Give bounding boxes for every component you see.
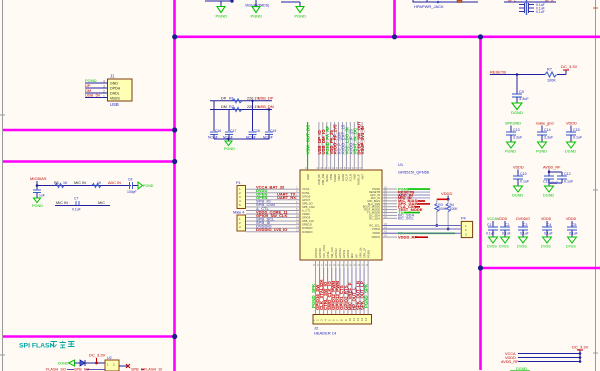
svg-text:1uF: 1uF: [39, 194, 45, 198]
ground PGND: [538, 142, 547, 148]
svg-text:DGND: DGND: [565, 150, 576, 154]
svg-text:VTRIO: VTRIO: [372, 227, 380, 231]
svg-text:DC_3.3V: DC_3.3V: [561, 64, 578, 69]
svg-text:R7: R7: [547, 68, 552, 72]
svg-text:USB_DM: USB_DM: [258, 105, 274, 109]
net labels: [67, 369, 144, 371]
wire I2C_SCL long: [382, 228, 461, 230]
svg-text:DP: DP: [221, 97, 227, 101]
svg-text:DVSS: DVSS: [499, 245, 509, 249]
svg-text:PGND: PGND: [32, 204, 43, 208]
svg-text:DGND: DGND: [543, 194, 554, 198]
svg-text:C17: C17: [230, 129, 236, 133]
connector J4 box1: [233, 181, 246, 215]
svg-text:C4: C4: [547, 223, 551, 227]
partition horizontal line y=130 left: [3, 129, 175, 132]
svg-text:VDD: VDD: [353, 174, 357, 180]
resistor R2: [232, 108, 242, 112]
svg-text:PGND_SPK: PGND_SPK: [364, 283, 369, 308]
svg-text:C5: C5: [572, 223, 576, 227]
partition horizontal line y=161 left: [3, 160, 175, 163]
chip inner pin names: [302, 173, 381, 258]
svg-text:XO_N: XO_N: [349, 174, 353, 181]
svg-text:DVDDIO: DVDDIO: [516, 217, 530, 221]
svg-text:0.1uF: 0.1uF: [564, 180, 574, 184]
resistor R7: [545, 72, 557, 77]
partition vertical line x=174: [173, 0, 176, 371]
svg-text:0.1uF: 0.1uF: [520, 232, 529, 236]
junction dot (174,161): [172, 159, 177, 164]
chip U1 GR5515I: [300, 162, 430, 260]
junction dot (174,130): [172, 127, 177, 132]
capacitor C12: [557, 176, 567, 179]
svg-text:DVSS: DVSS: [566, 245, 576, 249]
svg-text:C12: C12: [564, 172, 571, 176]
svg-text:0.1uF: 0.1uF: [573, 136, 583, 140]
svg-text:XO_P: XO_P: [345, 174, 349, 181]
connector J4 box2: [237, 215, 246, 231]
resistor R3 R4 pullups: [435, 191, 458, 231]
svg-text:3.3uF: 3.3uF: [513, 136, 523, 140]
svg-text:DGND: DGND: [511, 110, 523, 115]
svg-text:USB_DM: USB_DM: [321, 173, 325, 185]
svg-text:0.1uF: 0.1uF: [72, 208, 81, 212]
wire mic row: [37, 181, 131, 186]
svg-text:SPK_LP: SPK_LP: [362, 248, 366, 258]
connector J5: [461, 217, 473, 238]
header J2: [311, 315, 371, 336]
svg-text:FLASH_SO: FLASH_SO: [46, 368, 66, 371]
svg-text:GND: GND: [110, 82, 118, 86]
svg-text:USB_DP: USB_DP: [317, 174, 321, 185]
svg-text:GPIO13: GPIO13: [338, 248, 342, 258]
capacitor C4: [546, 221, 548, 227]
svg-text:ANT: ANT: [360, 174, 364, 180]
svg-text:R2: R2: [229, 105, 234, 109]
svg-text:C9: C9: [519, 90, 524, 94]
junction dot (480,37): [478, 34, 483, 39]
resistor R5: [55, 184, 64, 188]
capacitor C8: [130, 182, 133, 189]
svg-text:VBAT: VBAT: [337, 174, 341, 181]
svg-text:C11: C11: [543, 180, 549, 184]
chip right pin wires: [382, 189, 397, 237]
svg-text:VDDD: VDDD: [441, 191, 452, 196]
svg-text:VDDD: VDDD: [513, 166, 524, 170]
svg-text:C18: C18: [254, 129, 260, 133]
svg-text:C7: C7: [74, 197, 78, 201]
mic circuit: [30, 176, 154, 212]
svg-text:NC/pF: NC/pF: [263, 136, 273, 140]
svg-text:DC_3.3V: DC_3.3V: [89, 353, 106, 358]
capacitor C6: [33, 190, 41, 193]
svg-text:U2: U2: [107, 356, 112, 360]
partition horizontal line y=336 left: [3, 335, 175, 338]
svg-text:SPI FLASH: SPI FLASH: [19, 343, 55, 350]
cap row3 C1-C5: [486, 217, 578, 249]
svg-text:VDDD_RF: VDDD_RF: [398, 234, 417, 239]
svg-text:DVSS: DVSS: [517, 245, 527, 249]
svg-text:DVSS: DVSS: [487, 245, 497, 249]
svg-text:PGND: PGND: [366, 250, 370, 258]
ground PGND top3: [295, 7, 307, 19]
ground PGND top1: [216, 7, 228, 19]
partition vertical line x=480: [479, 36, 482, 370]
resistor R4: [447, 199, 449, 203]
partition horizontal line y=37: [174, 35, 600, 38]
SPI flash title: [19, 341, 75, 350]
svg-text:0.1uF: 0.1uF: [486, 232, 495, 236]
junction dot (174,336): [172, 334, 177, 339]
chip right pin net labels: [398, 186, 455, 239]
svg-text:C3: C3: [523, 223, 527, 227]
ground PGND top2: [251, 7, 263, 19]
svg-text:14: 14: [364, 317, 368, 321]
svg-text:3.3uF: 3.3uF: [544, 136, 554, 140]
svg-text:PGND: PGND: [224, 147, 235, 151]
svg-text:C8: C8: [128, 178, 132, 182]
ground DGND: [514, 186, 523, 192]
bottom-right power stub: [501, 345, 589, 371]
svg-text:USB: USB: [110, 102, 119, 107]
svg-text:ADC IN: ADC IN: [108, 181, 121, 185]
chip top pin net labels: [306, 121, 366, 155]
svg-text:DVDDIO: DVDDIO: [302, 230, 312, 234]
svg-text:GPIO9: GPIO9: [302, 216, 311, 220]
partition horizontal line y=268 right: [480, 267, 600, 270]
vertical drops: [214, 101, 269, 141]
svg-text:DVSS: DVSS: [541, 245, 551, 249]
svg-text:UART_RX: UART_RX: [277, 195, 296, 200]
power DC_3.3V: [563, 69, 569, 71]
svg-text:GPIO2: GPIO2: [346, 249, 350, 258]
ground PGND mic: [34, 198, 41, 203]
svg-text:100K: 100K: [450, 207, 459, 211]
svg-text:PGND: PGND: [216, 14, 228, 19]
svg-text:PGND: PGND: [295, 14, 307, 19]
svg-text:DGND: DGND: [58, 362, 69, 366]
svg-text:1K: 1K: [63, 181, 68, 185]
svg-text:NC/pF: NC/pF: [223, 136, 233, 140]
svg-text:PGND: PGND: [251, 14, 263, 19]
wire USB pins: [85, 83, 108, 98]
svg-text:3.3uF: 3.3uF: [519, 97, 529, 101]
resistor R3: [436, 199, 438, 203]
svg-text:GR5515I_QFN56: GR5515I_QFN56: [398, 170, 430, 175]
svg-text:R1: R1: [229, 97, 234, 101]
svg-text:0.1uF: 0.1uF: [569, 232, 578, 236]
capacitor C1: [492, 221, 494, 227]
chip left pin net labels: [256, 185, 296, 233]
svg-text:SPBCSI: SPBCSI: [302, 223, 312, 227]
cap row2 C10 C11 C12: [512, 166, 574, 198]
ground PGND: [507, 142, 516, 148]
top cut-off wires: [205, 0, 300, 6]
svg-text:VCCA: VCCA: [302, 187, 310, 191]
sheet border right edge: [593, 0, 598, 371]
chip right pin wire extensions: [397, 192, 430, 198]
svg-text:HEADER 14: HEADER 14: [314, 331, 337, 336]
svg-text:GPIO16: GPIO16: [318, 248, 322, 258]
wire: [490, 74, 545, 76]
svg-text:RC_SCL: RC_SCL: [369, 224, 380, 228]
svg-text:P1: P1: [236, 181, 241, 185]
svg-text:VDDD: VDDD: [372, 231, 380, 235]
svg-text:SW_CLK: SW_CLK: [330, 247, 334, 258]
svg-text:SPK_LN: SPK_LN: [358, 248, 362, 258]
partition vertical line x=394 top: [393, 0, 396, 37]
junction dot (480,268): [478, 265, 483, 270]
svg-text:R5: R5: [54, 181, 59, 185]
svg-text:100pF: 100pF: [127, 190, 137, 194]
ground DGND: [567, 142, 576, 148]
capacitor C2: [504, 221, 506, 227]
svg-text:0.1uF: 0.1uF: [544, 232, 553, 236]
ground DGND: [512, 103, 522, 110]
capacitor C9: [512, 94, 522, 97]
svg-text:NC/pF: NC/pF: [246, 136, 256, 140]
svg-text:HP: HP: [354, 254, 358, 258]
svg-text:C10: C10: [520, 172, 527, 176]
capacitor C11: [544, 176, 554, 179]
cap row1 C13 C14 C15: [505, 122, 583, 154]
capacitor C3: [522, 221, 524, 227]
chip bottom pin net labels: [311, 279, 369, 310]
svg-text:VSW_OUT_DC: VSW_OUT_DC: [306, 125, 311, 155]
diode D1: [80, 360, 85, 366]
svg-text:GND: GND: [306, 174, 310, 180]
svg-text:MIC IN: MIC IN: [74, 181, 86, 185]
capacitor C14: [537, 132, 547, 135]
svg-text:C16: C16: [215, 129, 221, 133]
connector HPAPWR_JACK: [413, 0, 478, 9]
svg-text:SPKGND: SPKGND: [505, 122, 521, 126]
svg-text:Male 4: Male 4: [233, 211, 244, 215]
svg-text:GPIO1: GPIO1: [342, 249, 346, 258]
svg-text:VDDD: VDDD: [541, 217, 552, 221]
svg-text:USB_5V: USB_5V: [85, 93, 101, 98]
svg-text:C19: C19: [270, 129, 276, 133]
svg-text:VSUP_3V3_IN: VSUP_3V3_IN: [360, 126, 365, 154]
svg-text:DC_3.3V: DC_3.3V: [572, 345, 589, 350]
ground PGND: [225, 141, 232, 146]
svg-text:GPIO6: GPIO6: [302, 194, 311, 198]
svg-text:FLASH_SI: FLASH_SI: [144, 368, 162, 371]
capacitor C16: [210, 132, 218, 135]
svg-text:GPIO7: GPIO7: [302, 198, 311, 202]
svg-text:SPB_SO: SPB_SO: [74, 368, 89, 371]
capacitor C13: [506, 132, 516, 135]
svg-text:USB_DP: USB_DP: [258, 97, 274, 101]
sheet border left edge: [0, 0, 5, 371]
resistor R1: [232, 99, 242, 103]
svg-text:100K: 100K: [438, 207, 447, 211]
svg-text:0.1uF: 0.1uF: [502, 232, 511, 236]
wire down to C9: [516, 75, 518, 95]
svg-text:PGND: PGND: [536, 150, 547, 154]
svg-text:VDDIO: VDDIO: [371, 235, 380, 239]
capacitor C5: [571, 221, 573, 227]
svg-text:100K: 100K: [547, 79, 556, 83]
svg-text:C13: C13: [513, 128, 520, 132]
svg-text:RESETB: RESETB: [490, 70, 506, 75]
junction dot (174,37): [172, 34, 177, 39]
svg-text:MICBIAS: MICBIAS: [30, 176, 47, 181]
svg-text:DADL: DADL: [110, 92, 120, 96]
svg-text:SPB_CLK: SPB_CLK: [302, 219, 314, 223]
capacitor C17: [225, 132, 233, 135]
junction dot (394,37): [392, 34, 397, 39]
wire I2C_SDA long: [382, 225, 461, 227]
svg-text:0.1uF: 0.1uF: [520, 180, 530, 184]
svg-text:HP_R: HP_R: [545, 0, 554, 3]
svg-text:0.1uF: 0.1uF: [536, 10, 545, 14]
svg-text:VDDD: VDDD: [497, 217, 508, 221]
IC U2: [105, 360, 119, 371]
svg-text:NC/pF: NC/pF: [208, 136, 218, 140]
capacitor C7 row: [55, 205, 110, 207]
svg-text:AVDD_IF: AVDD_IF: [357, 174, 361, 186]
svg-text:AVDD_RF: AVDD_RF: [543, 166, 561, 170]
svg-text:RC_SDA: RC_SDA: [369, 216, 380, 220]
svg-text:VBUS: VBUS: [110, 97, 120, 101]
svg-text:MIC: MIC: [350, 253, 354, 258]
svg-text:GPIO12: GPIO12: [334, 248, 338, 258]
svg-text:A_CTL: A_CTL: [302, 209, 311, 213]
svg-text:DGND: DGND: [512, 194, 523, 198]
top-right capacitor cluster: [504, 0, 556, 15]
chip bottom pin wires: [316, 260, 369, 315]
svg-text:DVSS: DVSS: [302, 191, 310, 195]
wire J5 pin3: [382, 232, 461, 234]
svg-text:AVDD_RF: AVDD_RF: [501, 360, 519, 364]
svg-text:PGND: PGND: [333, 174, 337, 182]
chip left pin wires: [246, 189, 300, 232]
svg-text:VCCA: VCCA: [487, 217, 498, 221]
svg-text:PGND: PGND: [143, 184, 154, 188]
svg-text:C15: C15: [573, 128, 580, 132]
svg-text:SPB_SI: SPB_SI: [131, 368, 144, 371]
svg-text:MIC: MIC: [98, 201, 105, 205]
svg-text:C1: C1: [487, 223, 491, 227]
svg-text:VDDD: VDDD: [566, 217, 577, 221]
connector J1 USB: [103, 74, 132, 108]
ground PGND arrow: [138, 182, 143, 189]
svg-text:PGND: PGND: [505, 150, 516, 154]
capacitor C18: [249, 132, 257, 135]
svg-text:HP_L: HP_L: [508, 0, 516, 3]
svg-text:P4: P4: [461, 217, 466, 221]
svg-text:SPB_CSN: SPB_CSN: [302, 205, 315, 209]
chip top pin wires: [319, 122, 362, 170]
svg-text:J1: J1: [110, 74, 115, 79]
chip top pin numbers: [305, 166, 363, 170]
svg-text:GPIO15: GPIO15: [314, 248, 318, 258]
svg-text:VDDD: VDDD: [566, 122, 577, 126]
wire DM row: [210, 109, 272, 111]
chip left pin numbers: [296, 186, 299, 233]
chip right pin numbers: [384, 186, 387, 238]
svg-text:C14: C14: [544, 128, 551, 132]
ground arrow DGND: [69, 360, 75, 366]
svg-text:CTRL: CTRL: [326, 250, 330, 258]
svg-text:DVDDIO_1V8_IO: DVDDIO_1V8_IO: [256, 227, 287, 232]
wire DP row: [210, 100, 272, 102]
resistor R6: [92, 184, 101, 188]
svg-text:C2: C2: [505, 223, 509, 227]
svg-text:MIC IN: MIC IN: [56, 201, 68, 205]
svg-text:1K: 1K: [97, 181, 102, 185]
chip bottom pin wire blue segments: [320, 268, 365, 295]
svg-text:BC_SCL: BC_SCL: [398, 216, 415, 221]
svg-text:DCDC: DCDC: [325, 174, 329, 182]
svg-text:HPAPWR_JACK: HPAPWR_JACK: [414, 4, 444, 9]
SPI flash circuit: [46, 353, 162, 371]
svg-text:Gake_gnd: Gake_gnd: [536, 122, 554, 126]
svg-text:AVDD: AVDD: [341, 174, 345, 181]
svg-text:U1: U1: [398, 162, 404, 167]
resetb circuit: [490, 64, 578, 115]
ground DGND: [545, 186, 554, 192]
svg-text:DVDDIO: DVDDIO: [302, 226, 312, 230]
usb series resistor circuit: [208, 97, 276, 152]
svg-text:VDDD: VDDD: [302, 212, 310, 216]
wire VSW green: [307, 122, 309, 170]
chip bottom pin numbers: [313, 263, 369, 267]
capacitor C10: [513, 176, 523, 179]
svg-text:VSW: VSW: [329, 174, 333, 181]
svg-text:SPB_SO: SPB_SO: [302, 201, 313, 205]
svg-text:DPDH: DPDH: [110, 87, 121, 91]
svg-text:DM: DM: [221, 105, 227, 109]
svg-text:CLK_XTAL: CLK_XTAL: [322, 244, 326, 258]
capacitor C15: [566, 132, 576, 135]
capacitor C19: [265, 132, 273, 135]
